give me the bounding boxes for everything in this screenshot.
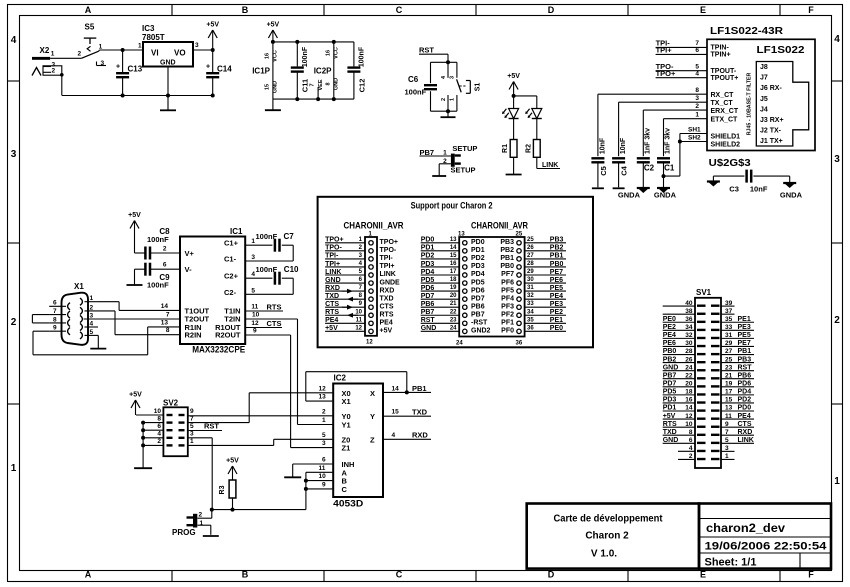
svg-text:PB6: PB6 — [471, 303, 485, 310]
svg-text:4053D: 4053D — [333, 499, 364, 509]
svg-text:PB2: PB2 — [663, 356, 677, 363]
svg-text:PD2: PD2 — [738, 397, 752, 404]
svg-text:CTS: CTS — [380, 303, 394, 310]
svg-text:15: 15 — [725, 397, 733, 404]
svg-text:6: 6 — [53, 300, 57, 307]
svg-text:+5V: +5V — [267, 22, 280, 29]
svg-text:VI: VI — [151, 49, 159, 58]
svg-text:28: 28 — [685, 348, 693, 355]
svg-text:16: 16 — [685, 397, 693, 404]
svg-text:TPO+: TPO+ — [656, 69, 676, 78]
svg-text:PE4: PE4 — [663, 332, 676, 339]
svg-text:100nF: 100nF — [405, 88, 427, 97]
svg-text:C1-: C1- — [224, 255, 237, 264]
svg-text:38: 38 — [685, 308, 693, 315]
svg-text:22: 22 — [450, 309, 457, 315]
svg-text:31: 31 — [527, 285, 534, 291]
svg-text:15: 15 — [392, 409, 400, 416]
svg-text:V+: V+ — [185, 249, 195, 258]
svg-text:3: 3 — [11, 149, 17, 160]
svg-text:19: 19 — [725, 381, 733, 388]
svg-text:12: 12 — [366, 340, 373, 346]
svg-text:SH1: SH1 — [688, 127, 701, 134]
svg-text:Carte de développement: Carte de développement — [554, 514, 664, 525]
svg-text:30: 30 — [527, 277, 534, 283]
svg-text:A: A — [85, 570, 92, 580]
svg-text:PF3: PF3 — [501, 303, 514, 310]
svg-text:C: C — [396, 5, 403, 15]
svg-text:4: 4 — [392, 432, 396, 439]
svg-text:2: 2 — [834, 315, 840, 326]
svg-text:PD0: PD0 — [421, 237, 435, 244]
svg-text:PB1: PB1 — [738, 348, 752, 355]
svg-text:D: D — [548, 570, 555, 580]
svg-text:100nF: 100nF — [256, 232, 278, 241]
svg-text:TXD: TXD — [380, 295, 394, 302]
svg-text:J7: J7 — [760, 75, 768, 82]
svg-text:7: 7 — [53, 308, 57, 315]
svg-text:C12: C12 — [358, 79, 367, 93]
svg-text:PE2: PE2 — [550, 309, 563, 316]
svg-text:V 1.0.: V 1.0. — [591, 549, 617, 560]
svg-text:+5V: +5V — [325, 325, 338, 332]
svg-text:J3 RX+: J3 RX+ — [760, 117, 784, 124]
svg-text:2: 2 — [157, 438, 161, 445]
svg-text:16: 16 — [326, 50, 332, 56]
svg-text:36: 36 — [516, 341, 523, 347]
svg-text:X2: X2 — [40, 46, 50, 55]
svg-text:10: 10 — [685, 421, 693, 428]
svg-text:GND: GND — [663, 364, 679, 371]
svg-text:12: 12 — [685, 413, 693, 420]
svg-text:PB3: PB3 — [738, 356, 752, 363]
svg-text:3: 3 — [449, 76, 455, 79]
svg-text:40: 40 — [685, 300, 693, 307]
svg-text:9: 9 — [53, 325, 57, 332]
svg-text:R3: R3 — [219, 485, 226, 494]
svg-text:+5V: +5V — [226, 458, 239, 465]
svg-text:VEE: VEE — [318, 79, 324, 90]
svg-text:C1+: C1+ — [224, 239, 239, 248]
svg-text:IC1P: IC1P — [252, 67, 270, 76]
svg-text:PE5: PE5 — [550, 285, 563, 292]
svg-text:8: 8 — [695, 87, 699, 94]
svg-text:PB0: PB0 — [663, 348, 677, 355]
svg-text:PF2: PF2 — [501, 311, 514, 318]
svg-text:18: 18 — [450, 277, 457, 283]
svg-text:+5V: +5V — [128, 212, 141, 219]
svg-text:GNDA: GNDA — [618, 191, 641, 200]
svg-text:PD2: PD2 — [471, 255, 485, 262]
svg-text:PD0: PD0 — [471, 239, 485, 246]
svg-text:3: 3 — [322, 440, 326, 447]
svg-text:GND: GND — [334, 78, 340, 90]
svg-text:PROG: PROG — [172, 528, 196, 537]
svg-text:C11: C11 — [301, 79, 310, 92]
svg-text:30: 30 — [685, 340, 693, 347]
svg-text:PD6: PD6 — [471, 287, 485, 294]
svg-text:7: 7 — [695, 40, 699, 47]
svg-text:12: 12 — [251, 320, 259, 327]
svg-text:100nF: 100nF — [147, 280, 169, 289]
svg-text:PB6: PB6 — [738, 372, 752, 379]
svg-text:R2: R2 — [525, 144, 532, 153]
svg-text:PD5: PD5 — [471, 279, 485, 286]
svg-text:8: 8 — [326, 82, 332, 85]
svg-text:1nF 3kv: 1nF 3kv — [665, 128, 672, 154]
svg-text:1: 1 — [443, 149, 447, 156]
svg-text:RST: RST — [419, 46, 434, 55]
svg-text:J6 RX-: J6 RX- — [760, 85, 782, 92]
svg-text:CTS: CTS — [267, 319, 282, 328]
svg-text:27: 27 — [527, 253, 534, 259]
svg-text:RTS: RTS — [380, 311, 394, 318]
svg-text:12: 12 — [355, 325, 362, 331]
svg-text:SETUP: SETUP — [452, 144, 477, 153]
svg-text:SETUP: SETUP — [451, 166, 476, 175]
svg-text:21: 21 — [725, 372, 733, 379]
svg-text:PB2: PB2 — [550, 245, 564, 252]
svg-text:C2+: C2+ — [224, 272, 239, 281]
svg-text:IC2: IC2 — [334, 374, 347, 383]
svg-text:PF5: PF5 — [501, 287, 514, 294]
svg-text:RST: RST — [204, 422, 219, 431]
svg-text:SHIELD2: SHIELD2 — [711, 142, 741, 149]
svg-text:C2-: C2- — [224, 288, 237, 297]
svg-text:ETX_CT: ETX_CT — [711, 117, 739, 124]
svg-text:CHARONII_AVR: CHARONII_AVR — [344, 221, 404, 231]
svg-text:GNDE: GNDE — [380, 279, 401, 286]
svg-text:16: 16 — [450, 261, 457, 267]
svg-text:2: 2 — [199, 512, 203, 519]
svg-text:VO: VO — [174, 49, 186, 58]
svg-text:3: 3 — [190, 431, 194, 438]
svg-text:E: E — [700, 570, 706, 580]
svg-text:+5V: +5V — [663, 413, 676, 420]
svg-text:29: 29 — [725, 340, 733, 347]
svg-text:15: 15 — [265, 84, 271, 90]
svg-text:C7: C7 — [284, 232, 295, 241]
svg-text:RJ45 - 10BASE-T FILTER: RJ45 - 10BASE-T FILTER — [747, 73, 753, 136]
svg-text:Support pour Charon 2: Support pour Charon 2 — [411, 201, 493, 212]
svg-text:36: 36 — [527, 325, 534, 331]
svg-text:GND: GND — [160, 60, 176, 67]
svg-text:RXD: RXD — [380, 287, 395, 294]
svg-text:RST: RST — [738, 364, 753, 371]
svg-text:6: 6 — [322, 457, 326, 464]
svg-text:25: 25 — [516, 232, 523, 238]
svg-text:GND2: GND2 — [471, 328, 491, 335]
svg-text:PD5: PD5 — [663, 389, 677, 396]
svg-text:3: 3 — [251, 254, 255, 261]
svg-text:ERX_CT: ERX_CT — [711, 108, 739, 115]
svg-text:SV1: SV1 — [696, 288, 712, 297]
svg-text:14: 14 — [450, 245, 457, 251]
svg-text:LINK: LINK — [325, 269, 341, 276]
svg-text:F: F — [808, 5, 814, 15]
svg-text:1: 1 — [725, 453, 729, 460]
svg-text:5: 5 — [322, 432, 326, 439]
svg-text:100nF: 100nF — [302, 46, 309, 67]
svg-text:2: 2 — [52, 67, 56, 74]
svg-text:PB7: PB7 — [471, 311, 485, 318]
svg-text:D: D — [548, 5, 555, 15]
svg-text:Y: Y — [370, 412, 375, 421]
svg-text:PD1: PD1 — [421, 245, 435, 252]
svg-text:TPO-: TPO- — [325, 245, 342, 252]
svg-text:J4: J4 — [760, 106, 768, 113]
svg-text:22: 22 — [685, 372, 693, 379]
svg-text:PF1: PF1 — [501, 320, 514, 327]
svg-text:RXD: RXD — [412, 431, 428, 440]
svg-text:GNDA: GNDA — [780, 191, 803, 200]
svg-text:E: E — [700, 5, 706, 15]
svg-text:TPOUT+: TPOUT+ — [711, 75, 739, 82]
svg-text:13: 13 — [450, 237, 457, 243]
svg-text:7: 7 — [190, 415, 194, 422]
svg-text:PB0: PB0 — [500, 263, 514, 270]
svg-text:J1 TX+: J1 TX+ — [760, 138, 783, 145]
svg-text:SH2: SH2 — [688, 135, 701, 142]
svg-text:PE0: PE0 — [663, 316, 676, 323]
svg-text:39: 39 — [725, 300, 733, 307]
svg-text:GND: GND — [663, 437, 679, 444]
svg-text:5: 5 — [190, 423, 194, 430]
svg-text:25: 25 — [527, 237, 534, 243]
svg-text:8: 8 — [157, 415, 161, 422]
svg-text:2: 2 — [163, 245, 167, 252]
svg-text:4: 4 — [834, 34, 840, 45]
svg-text:A: A — [85, 5, 92, 15]
svg-text:TPOUT-: TPOUT- — [711, 68, 737, 75]
svg-text:J8: J8 — [760, 64, 768, 71]
svg-text:19: 19 — [450, 285, 457, 291]
svg-text:17: 17 — [725, 389, 733, 396]
svg-text:14: 14 — [392, 385, 400, 392]
svg-text:V-: V- — [185, 265, 193, 274]
svg-text:8: 8 — [689, 429, 693, 436]
svg-text:LINK: LINK — [738, 437, 754, 444]
svg-text:25: 25 — [725, 356, 733, 363]
svg-text:11: 11 — [725, 413, 732, 420]
svg-text:MAX3232CPE: MAX3232CPE — [192, 345, 245, 355]
svg-text:PB6: PB6 — [421, 301, 435, 308]
svg-text:PF4: PF4 — [501, 295, 514, 302]
svg-text:PD0: PD0 — [738, 405, 752, 412]
svg-text:7805T: 7805T — [142, 33, 165, 42]
svg-text:PD2: PD2 — [421, 253, 435, 260]
svg-text:9: 9 — [725, 421, 729, 428]
svg-text:LF1S022: LF1S022 — [757, 45, 806, 56]
svg-text:6: 6 — [163, 262, 167, 269]
svg-text:34: 34 — [527, 309, 534, 315]
svg-text:CTS: CTS — [738, 421, 752, 428]
svg-text:J5: J5 — [760, 96, 768, 103]
svg-text:9: 9 — [190, 408, 194, 415]
svg-text:Z: Z — [370, 435, 375, 444]
svg-text:26: 26 — [527, 245, 534, 251]
svg-text:PD3: PD3 — [663, 397, 677, 404]
svg-text:1nF 3kv: 1nF 3kv — [645, 128, 652, 154]
svg-text:1: 1 — [190, 438, 194, 445]
svg-text:IC1: IC1 — [230, 227, 243, 236]
svg-text:10nF: 10nF — [620, 137, 627, 154]
svg-text:2: 2 — [695, 103, 699, 110]
svg-text:Charon 2: Charon 2 — [585, 531, 629, 542]
svg-text:1: 1 — [322, 417, 326, 424]
svg-text:PD7: PD7 — [663, 381, 677, 388]
svg-text:23: 23 — [725, 364, 733, 371]
svg-text:TPO+: TPO+ — [325, 237, 343, 244]
svg-text:RTS: RTS — [325, 309, 339, 316]
svg-text:9: 9 — [322, 481, 326, 488]
svg-text:10: 10 — [252, 312, 260, 319]
svg-text:C6: C6 — [408, 75, 419, 84]
svg-text:31: 31 — [725, 332, 733, 339]
svg-text:PB7: PB7 — [663, 372, 677, 379]
svg-text:R2IN: R2IN — [185, 331, 202, 340]
svg-text:7: 7 — [310, 83, 316, 86]
svg-text:PB2: PB2 — [500, 247, 514, 254]
svg-text:1: 1 — [138, 43, 142, 50]
svg-text:RXD: RXD — [325, 285, 340, 292]
svg-text:7: 7 — [166, 311, 170, 318]
svg-text:PE7: PE7 — [550, 269, 563, 276]
svg-text:X: X — [370, 389, 375, 398]
svg-text:33: 33 — [527, 301, 534, 307]
svg-text:SV2: SV2 — [163, 399, 179, 408]
svg-text:32: 32 — [527, 293, 534, 299]
svg-text:2: 2 — [11, 317, 17, 328]
svg-text:13: 13 — [725, 405, 733, 412]
svg-text:PD7: PD7 — [471, 295, 485, 302]
svg-text:GND: GND — [325, 277, 341, 284]
svg-text:11: 11 — [251, 304, 258, 311]
svg-text:24: 24 — [450, 325, 457, 331]
svg-text:100nF: 100nF — [256, 265, 278, 274]
svg-text:4: 4 — [689, 445, 693, 452]
svg-text:10nF: 10nF — [599, 137, 606, 154]
svg-text:F: F — [808, 570, 814, 580]
svg-text:GND: GND — [273, 81, 279, 93]
svg-text:26: 26 — [685, 356, 693, 363]
svg-text:PD3: PD3 — [471, 263, 485, 270]
svg-text:1: 1 — [51, 50, 55, 57]
svg-text:RTS: RTS — [663, 421, 677, 428]
svg-text:PB1: PB1 — [412, 384, 427, 393]
svg-text:2: 2 — [90, 304, 94, 311]
svg-text:+: + — [206, 64, 210, 71]
svg-text:5: 5 — [251, 287, 255, 294]
svg-text:3: 3 — [90, 312, 94, 319]
svg-text:B: B — [242, 5, 249, 15]
svg-text:PE4: PE4 — [325, 317, 338, 324]
svg-text:TPI+: TPI+ — [325, 261, 340, 268]
svg-text:11: 11 — [319, 465, 326, 472]
svg-text:10: 10 — [355, 309, 362, 315]
svg-text:1: 1 — [11, 463, 17, 474]
svg-text:100nF: 100nF — [359, 46, 366, 67]
svg-text:TXD: TXD — [412, 408, 428, 417]
svg-text:X1: X1 — [74, 282, 84, 291]
svg-text:C4: C4 — [620, 165, 629, 175]
svg-text:5: 5 — [725, 437, 729, 444]
svg-text:PD3: PD3 — [421, 261, 435, 268]
svg-text:24: 24 — [685, 364, 693, 371]
svg-text:36: 36 — [685, 316, 693, 323]
svg-text:LF1S022-43R: LF1S022-43R — [710, 25, 783, 37]
svg-text:3: 3 — [195, 42, 199, 49]
svg-text:15: 15 — [450, 253, 457, 259]
svg-text:2: 2 — [689, 453, 693, 460]
svg-text:1: 1 — [449, 98, 455, 101]
svg-text:PE5: PE5 — [738, 332, 751, 339]
svg-text:PE6: PE6 — [550, 277, 563, 284]
svg-text:6: 6 — [689, 437, 693, 444]
svg-text:10: 10 — [319, 473, 327, 480]
svg-text:-RST: -RST — [471, 320, 488, 327]
svg-text:RX_CT: RX_CT — [711, 92, 735, 99]
svg-text:PF6: PF6 — [501, 279, 514, 286]
svg-text:Y1: Y1 — [342, 421, 351, 430]
svg-text:TPI-: TPI- — [325, 253, 339, 260]
svg-text:PB0: PB0 — [550, 261, 564, 268]
svg-text:18: 18 — [685, 389, 693, 396]
svg-text:C: C — [396, 570, 403, 580]
svg-text:+5V: +5V — [129, 392, 142, 399]
svg-text:27: 27 — [725, 348, 733, 355]
svg-text:20: 20 — [450, 293, 457, 299]
svg-text:PE4: PE4 — [738, 413, 751, 420]
svg-text:13: 13 — [458, 232, 465, 238]
svg-text:6: 6 — [157, 423, 161, 430]
svg-text:LINK: LINK — [542, 162, 558, 169]
svg-text:TPI+: TPI+ — [656, 46, 673, 55]
svg-text:Z1: Z1 — [342, 444, 351, 453]
svg-text:3: 3 — [725, 445, 729, 452]
svg-text:29: 29 — [527, 269, 534, 275]
svg-text:GNDA: GNDA — [654, 191, 677, 200]
svg-text:PD4: PD4 — [471, 271, 485, 278]
svg-text:R2OUT: R2OUT — [215, 331, 241, 340]
svg-text:1: 1 — [695, 112, 699, 119]
svg-text:C14: C14 — [217, 65, 232, 74]
svg-text:4: 4 — [157, 431, 161, 438]
svg-text:S1: S1 — [475, 83, 482, 92]
svg-text:C: C — [342, 485, 348, 494]
svg-text:PE4: PE4 — [550, 293, 563, 300]
svg-text:1: 1 — [90, 295, 94, 302]
svg-text:S5: S5 — [85, 23, 95, 32]
svg-text:LINK: LINK — [380, 271, 396, 278]
svg-text:TPIN-: TPIN- — [711, 45, 730, 52]
svg-text:8: 8 — [53, 316, 57, 323]
svg-text:C1: C1 — [664, 163, 675, 172]
svg-text:4: 4 — [90, 320, 94, 327]
svg-text:34: 34 — [685, 324, 693, 331]
svg-text:12: 12 — [319, 385, 327, 392]
svg-text:CTS: CTS — [325, 301, 339, 308]
svg-text:C13: C13 — [128, 65, 143, 74]
svg-text:TPO+: TPO+ — [380, 239, 398, 246]
svg-text:PB1: PB1 — [550, 253, 564, 260]
svg-text:PD4: PD4 — [421, 269, 435, 276]
svg-text:PE3: PE3 — [738, 324, 751, 331]
svg-text:R1: R1 — [502, 144, 509, 153]
svg-text:100nF: 100nF — [147, 235, 169, 244]
svg-text:20: 20 — [685, 381, 693, 388]
svg-text:U$2G$3: U$2G$3 — [709, 157, 751, 169]
